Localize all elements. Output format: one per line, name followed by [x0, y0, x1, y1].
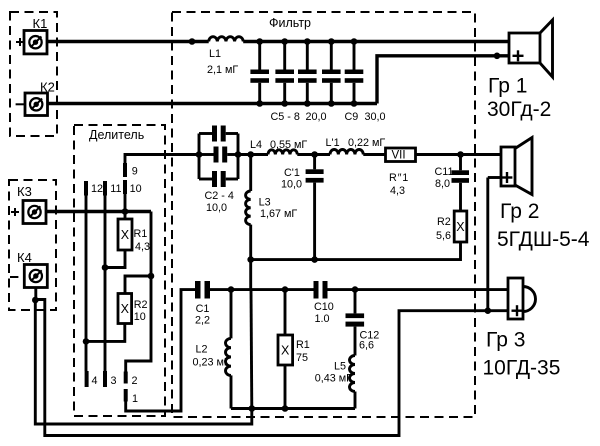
- svg-text:12: 12: [91, 183, 103, 195]
- node K4 junction: [32, 297, 39, 304]
- svg-text:L4: L4: [250, 139, 262, 151]
- divider terminal stub 1: [124, 389, 128, 402]
- node C12 top: [352, 286, 359, 293]
- node R2 top tap: [148, 273, 155, 280]
- wire C2-4 to L4: [238, 153, 268, 156]
- resistor R2 (5,6): [454, 211, 467, 242]
- svg-text:5,6: 5,6: [436, 230, 451, 242]
- node C'1 bottom: [311, 256, 318, 263]
- wire right branch down to stub 2: [126, 212, 151, 372]
- wire mid ground rail: [251, 242, 461, 260]
- svg-text:R1: R1: [134, 228, 148, 240]
- wire R"1 to Гр2: [416, 153, 502, 156]
- svg-text:30Гд-2: 30Гд-2: [487, 98, 551, 121]
- svg-text:0,55 мГ: 0,55 мГ: [270, 139, 307, 151]
- svg-text:C10: C10: [314, 301, 334, 313]
- wire top bus L1 to Гр1: [243, 40, 509, 43]
- divider terminal stub 11: [103, 181, 107, 196]
- svg-text:К4: К4: [17, 250, 32, 265]
- svg-text:L1: L1: [209, 48, 221, 60]
- speaker Гр1: [509, 20, 553, 77]
- svg-text:Гр 3: Гр 3: [486, 329, 525, 352]
- wire K4 stem: [34, 288, 37, 301]
- svg-text:2,1 мГ: 2,1 мГ: [207, 64, 238, 76]
- svg-text:X: X: [121, 302, 130, 316]
- wire R2 top tap: [125, 276, 151, 294]
- inductor L1: [209, 37, 244, 42]
- speaker Гр2: [501, 138, 532, 195]
- inductor L4: [268, 150, 297, 155]
- wire bottom ground rail: [231, 407, 355, 410]
- speaker Гр3: [508, 278, 536, 319]
- resistor R"1 box VII: [386, 148, 416, 162]
- svg-text:4,3: 4,3: [390, 185, 405, 197]
- wire K1 to L1: [47, 40, 209, 43]
- wire stub 10 to R1: [124, 194, 127, 219]
- capacitor C3 middle branch: [199, 147, 238, 163]
- svg-text:10: 10: [134, 311, 146, 323]
- divider terminal stub 12: [84, 181, 88, 196]
- svg-text:10,0: 10,0: [281, 179, 302, 191]
- connector K1: [24, 31, 47, 54]
- capacitor bank C2-4 right rail: [237, 134, 240, 180]
- capacitor C'1: [306, 155, 324, 260]
- svg-text:10: 10: [130, 183, 142, 195]
- junction dots bottom bus: [256, 100, 357, 107]
- dashed enclosure K1/K2 input terminals: [10, 12, 57, 136]
- plus sign K1: [16, 38, 24, 46]
- capacitor C8: [322, 42, 341, 104]
- svg-text:11: 11: [110, 183, 121, 195]
- inductor L2: [226, 290, 232, 409]
- wire Гр2 plus to Гр3 plus: [486, 178, 489, 311]
- svg-text:10,0: 10,0: [206, 202, 227, 214]
- inductor L5: [350, 356, 356, 409]
- svg-text:Делитель: Делитель: [89, 128, 144, 142]
- wire L'1 to R"1 box: [363, 153, 385, 156]
- svg-text:6,6: 6,6: [359, 340, 374, 352]
- svg-text:1,67 мГ: 1,67 мГ: [260, 208, 297, 220]
- capacitor C4 bottom branch: [199, 171, 238, 187]
- svg-text:20,0: 20,0: [306, 111, 327, 123]
- dashed enclosure Делитель (divider): [74, 125, 165, 416]
- wire R1 bottom to stub11 line: [105, 250, 125, 268]
- node R1 75 bottom: [282, 405, 289, 412]
- node C'1 top: [311, 151, 318, 158]
- svg-text:8,0: 8,0: [435, 178, 450, 190]
- svg-text:L5: L5: [334, 361, 346, 373]
- svg-text:С'1: С'1: [284, 167, 300, 179]
- svg-text:Фильтр: Фильтр: [269, 16, 311, 30]
- svg-text:К3: К3: [17, 184, 32, 199]
- svg-text:2: 2: [132, 375, 138, 387]
- svg-text:5ГДШ-5-4: 5ГДШ-5-4: [497, 228, 590, 251]
- svg-text:Гр 1: Гр 1: [488, 75, 527, 98]
- svg-text:1: 1: [132, 393, 138, 405]
- svg-text:75: 75: [296, 352, 308, 364]
- capacitor C10: [314, 281, 328, 299]
- node R2 bottom / stub 12 line: [83, 338, 90, 345]
- dashed enclosure K3/K4 input terminals: [9, 180, 56, 310]
- svg-text:X: X: [121, 228, 130, 242]
- svg-text:0,43 мГ: 0,43 мГ: [315, 373, 352, 385]
- node L3 tap: [247, 151, 254, 158]
- node Гр1 plus: [494, 53, 501, 60]
- svg-text:С5 - 8: С5 - 8: [271, 111, 300, 123]
- svg-text:0,22 мГ: 0,22 мГ: [348, 137, 385, 149]
- wire stub 1 to C1: [126, 290, 195, 411]
- wire K4 to bottom rail (ground return): [35, 300, 252, 424]
- dashed enclosure Фильтр (filter): [172, 12, 475, 417]
- svg-text:L3: L3: [259, 197, 271, 209]
- wire Гр3 plus to speaker: [488, 309, 508, 312]
- node Гр3 plus: [485, 307, 492, 314]
- node C2-4 right: [235, 151, 242, 158]
- svg-text:С2 - 4: С2 - 4: [205, 190, 234, 202]
- svg-text:Гр 2: Гр 2: [500, 200, 539, 223]
- svg-text:L2: L2: [196, 344, 208, 356]
- capacitor C9: [345, 42, 364, 104]
- inductor L3: [246, 155, 251, 260]
- svg-text:К2: К2: [40, 80, 55, 95]
- divider terminal stub 9: [123, 163, 127, 177]
- svg-text:С9: С9: [345, 111, 359, 123]
- wire bottom bus up to Гр1 plus: [377, 56, 509, 104]
- plus sign K3: [11, 208, 19, 216]
- svg-text:R1: R1: [296, 339, 310, 351]
- connector K2: [25, 93, 48, 116]
- node L2 top: [228, 286, 235, 293]
- divider terminal stub 10: [123, 180, 127, 194]
- divider terminal stub 2: [124, 372, 128, 384]
- node K3 wire / stub10: [122, 208, 129, 215]
- resistor R1 75: [278, 290, 293, 409]
- divider terminal stub 4: [85, 371, 89, 387]
- capacitor bank C2-4 left rail: [198, 134, 201, 180]
- node R1 75 top: [282, 286, 289, 293]
- node at L1 input: [189, 38, 196, 45]
- wire stub 11 to stub 3: [104, 196, 107, 372]
- svg-text:2,2: 2,2: [195, 315, 210, 327]
- svg-text:0,23 мГ: 0,23 мГ: [193, 357, 230, 369]
- node ground rail / K4 riser: [249, 405, 256, 412]
- svg-text:3: 3: [111, 375, 117, 387]
- svg-text:4: 4: [92, 375, 98, 387]
- node R1 bottom / stub 11 line: [102, 264, 109, 271]
- svg-text:C11: C11: [435, 166, 454, 178]
- svg-text:VII: VII: [392, 150, 406, 162]
- svg-text:4,3: 4,3: [135, 241, 150, 253]
- svg-text:X: X: [456, 220, 465, 234]
- wire L4 to L'1: [297, 153, 330, 156]
- wire K2 bottom bus: [48, 102, 377, 105]
- connector K3: [23, 201, 46, 224]
- capacitor C11: [452, 155, 470, 212]
- capacitor C12 and inductor L5 branch: [346, 290, 365, 356]
- svg-text:30,0: 30,0: [365, 111, 386, 123]
- junction dots top bus: [256, 38, 357, 45]
- node L3 bottom: [247, 256, 254, 263]
- node C11 top: [457, 151, 464, 158]
- capacitor C7: [298, 42, 317, 104]
- svg-text:L'1: L'1: [326, 137, 340, 149]
- wire C10 to Гр3: [328, 288, 509, 291]
- wire K4 to Гр2/Гр3 plus: [35, 300, 488, 436]
- svg-text:К1: К1: [33, 16, 48, 31]
- svg-text:R2: R2: [437, 216, 451, 228]
- svg-text:10ГД-35: 10ГД-35: [483, 357, 561, 380]
- minus sign K2: [16, 103, 24, 105]
- capacitor C5: [250, 42, 269, 104]
- svg-text:X: X: [281, 343, 290, 357]
- wire R2 bottom to stub12 line: [86, 324, 125, 342]
- wire Гр2 plus horizontal: [488, 176, 501, 179]
- node C2-4 left: [196, 151, 203, 158]
- resistor R1 divider: [118, 219, 132, 250]
- minus sign K4: [10, 276, 18, 278]
- capacitor C6: [275, 42, 294, 104]
- svg-text:R2: R2: [134, 299, 148, 311]
- wire C1 to C10: [210, 288, 314, 291]
- inductor L'1: [330, 150, 363, 155]
- svg-text:9: 9: [132, 166, 138, 178]
- divider terminal stub 3: [103, 371, 107, 387]
- capacitor C1: [195, 281, 210, 299]
- wire stub 12 to stub 4: [85, 196, 88, 372]
- svg-text:C1: C1: [196, 303, 210, 315]
- svg-text:1.0: 1.0: [315, 313, 330, 325]
- wire stub 9 to C2-4: [125, 155, 199, 164]
- resistor R2 divider: [118, 294, 132, 324]
- connector K4: [24, 265, 47, 288]
- wire K3 to divider: [46, 210, 151, 213]
- wire mid rail to bottom rail: [249, 260, 252, 290]
- capacitor C2 top branch: [199, 126, 238, 142]
- svg-text:R″1: R″1: [389, 172, 409, 184]
